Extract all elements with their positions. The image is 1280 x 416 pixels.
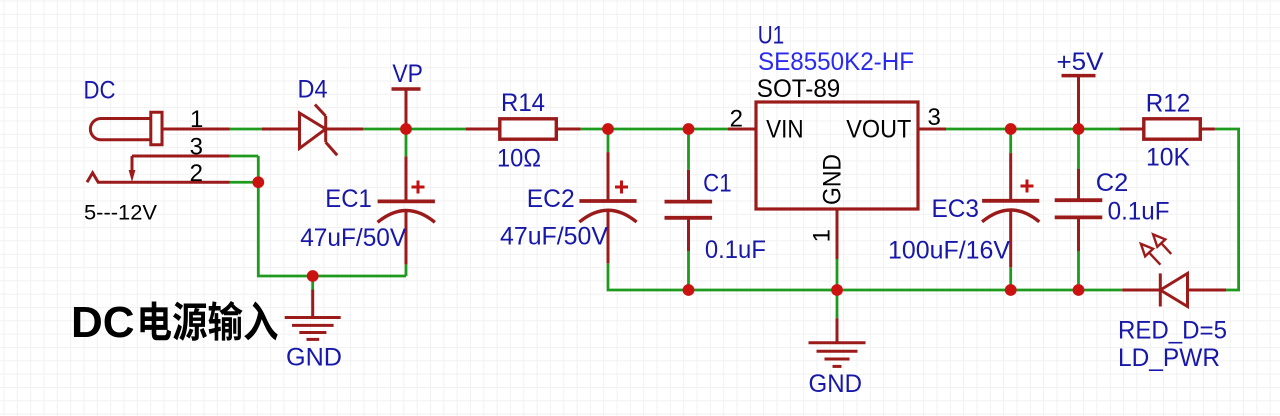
svg-text:C1: C1 — [703, 170, 732, 198]
svg-text:1: 1 — [190, 106, 203, 133]
svg-text:10Ω: 10Ω — [497, 145, 541, 173]
svg-text:VP: VP — [392, 60, 423, 88]
wire: DC pin1 to D4 — [230, 128, 263, 131]
wire: C2 bottom stub — [1077, 251, 1080, 290]
svg-text:47uF/50V: 47uF/50V — [500, 222, 608, 250]
wire: VP node to EC1 top — [405, 129, 408, 156]
svg-text:GND: GND — [819, 154, 847, 205]
wire: junction down to left ground rail — [258, 156, 406, 276]
svg-text:0.1uF: 0.1uF — [705, 236, 766, 264]
ground right — [809, 318, 866, 366]
svg-text:10K: 10K — [1146, 144, 1190, 172]
wire: C1 top stub — [687, 129, 690, 170]
wire: EC3 top stub — [1009, 129, 1012, 153]
power flag VP — [392, 89, 421, 129]
svg-text:0.1uF: 0.1uF — [1108, 198, 1170, 226]
wire: left GND stub — [311, 276, 314, 291]
connector DC barrel jack — [87, 112, 230, 182]
svg-text:R12: R12 — [1146, 90, 1191, 118]
svg-text:1: 1 — [809, 229, 836, 242]
svg-text:+5V: +5V — [1057, 48, 1104, 76]
capacitor EC2 electrolytic — [579, 152, 636, 263]
wire: C1 bottom stub — [687, 251, 690, 290]
title text DC dianyuan shuru — [71, 298, 278, 347]
regulator U1 body — [728, 102, 946, 259]
svg-text:SOT-89: SOT-89 — [757, 75, 841, 103]
LED LD_PWR — [1122, 234, 1226, 306]
svg-text:100uF/16V: 100uF/16V — [888, 237, 1010, 265]
ground left — [285, 290, 341, 340]
resistor R12 — [1120, 119, 1215, 139]
svg-text:VIN: VIN — [766, 115, 804, 143]
capacitor C1 ceramic — [665, 170, 713, 251]
svg-text:2: 2 — [190, 160, 203, 187]
svg-text:RED_D=5: RED_D=5 — [1118, 317, 1227, 345]
wire: U1 GND pin to rail — [836, 259, 839, 290]
svg-text:GND: GND — [286, 344, 342, 372]
wire: right GND stub — [836, 290, 839, 318]
svg-text:DC: DC — [71, 298, 135, 347]
svg-text:3: 3 — [928, 104, 941, 131]
svg-text:D4: D4 — [298, 76, 328, 104]
capacitor C2 ceramic — [1055, 169, 1103, 251]
wire: EC1 bottom stub — [405, 264, 408, 276]
svg-text:EC3: EC3 — [932, 195, 980, 223]
svg-text:C2: C2 — [1096, 169, 1129, 197]
svg-text:LD_PWR: LD_PWR — [1118, 344, 1220, 372]
svg-text:GND: GND — [809, 370, 863, 398]
svg-text:R14: R14 — [501, 89, 545, 117]
wire: EC3 bottom stub — [1009, 267, 1012, 290]
svg-text:47uF/50V: 47uF/50V — [300, 224, 406, 252]
svg-text:DC: DC — [84, 77, 116, 105]
capacitor EC3 electrolytic — [982, 153, 1039, 267]
resistor R14 — [466, 119, 581, 139]
wire: right ground rail — [608, 263, 1122, 290]
svg-text:2: 2 — [730, 106, 743, 133]
svg-text:3: 3 — [190, 134, 203, 161]
svg-text:EC2: EC2 — [527, 185, 575, 213]
wire: D4 cathode to R14 through VP node — [363, 128, 466, 131]
wire: R14 to U1 VIN through EC2 and C1 nodes — [581, 128, 728, 131]
svg-text:EC1: EC1 — [325, 185, 372, 213]
wire: C2 top stub — [1077, 129, 1080, 169]
wire: DC pin2 stub — [230, 181, 259, 184]
power flag +5V — [1062, 76, 1096, 129]
svg-text:VOUT: VOUT — [846, 115, 911, 143]
svg-text:U1: U1 — [758, 22, 785, 50]
svg-text:5---12V: 5---12V — [84, 202, 157, 225]
capacitor EC1 electrolytic — [378, 156, 435, 264]
wire: DC pin3 stub — [230, 155, 259, 158]
diode D4 — [262, 105, 363, 156]
wire: R12 right down right edge to LED anode — [1215, 129, 1239, 290]
wire: U1 VOUT to R12 through EC3, C2, +5V nodes — [946, 128, 1120, 131]
wire: EC2 top stub — [607, 129, 610, 152]
svg-text:SE8550K2-HF: SE8550K2-HF — [758, 48, 914, 76]
